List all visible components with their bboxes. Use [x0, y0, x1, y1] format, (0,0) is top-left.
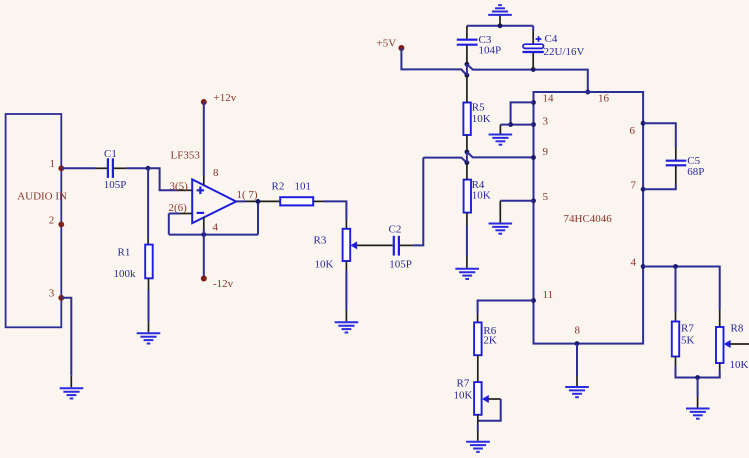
svg-text:8: 8	[575, 324, 581, 336]
node jog upper	[465, 150, 470, 155]
wire pin8 to ground	[576, 344, 578, 386]
wire R6 to R7	[477, 355, 479, 382]
capacitor C2	[389, 223, 412, 270]
node R7b tap	[673, 264, 678, 269]
node output feedback tap	[256, 199, 261, 204]
ground under R4	[455, 269, 479, 279]
svg-text:22U/16V: 22U/16V	[544, 46, 585, 58]
svg-text:2K: 2K	[483, 334, 497, 346]
svg-text:+5V: +5V	[377, 37, 397, 49]
ground under R1	[137, 333, 161, 343]
capacitor C3	[457, 34, 501, 56]
capacitor C5 68P	[666, 155, 705, 178]
wire op-amp pin 4 to -12v	[203, 217, 205, 278]
wire R8 top lead	[719, 310, 721, 327]
node IC pin 3	[531, 122, 536, 127]
svg-text:8: 8	[213, 167, 219, 179]
svg-text:7: 7	[631, 179, 637, 191]
svg-text:100k: 100k	[114, 268, 137, 280]
ground under J1	[60, 388, 84, 398]
svg-text:14: 14	[543, 92, 555, 104]
wire R5 bottom lead	[466, 135, 468, 152]
resistor R1 100k	[114, 245, 153, 280]
ground at pin5	[489, 224, 513, 234]
resistor R4 10K	[464, 179, 491, 213]
svg-text:104P: 104P	[479, 45, 502, 57]
wire tap to ground	[697, 378, 699, 408]
wire +5V rail right to IC pin 16	[467, 64, 588, 92]
wire feedback rail	[169, 234, 258, 236]
node IC pin 14	[531, 100, 536, 105]
node pin16	[585, 90, 590, 95]
svg-text:-12v: -12v	[213, 278, 234, 290]
svg-text:105P: 105P	[389, 258, 412, 270]
wire pin11 to R6	[478, 301, 534, 323]
svg-text:5K: 5K	[681, 334, 695, 346]
svg-text:4: 4	[213, 222, 219, 234]
svg-text:68P: 68P	[687, 166, 704, 178]
capacitor C4 22U/16V polarized	[523, 33, 585, 58]
resistor R6 2K	[474, 322, 497, 355]
connector J1 AUDIO IN box	[6, 114, 67, 327]
node top ground junction	[498, 23, 503, 28]
wire pin14 to pin3 loop	[511, 102, 534, 124]
potentiometer R8 10K	[716, 323, 749, 372]
svg-text:74HC4046: 74HC4046	[564, 213, 613, 225]
wire C2 to VCOin riser	[400, 158, 423, 246]
svg-text:10K: 10K	[730, 359, 749, 371]
wire pin4 net	[643, 267, 720, 311]
wire J1 pin1 to C1	[61, 167, 107, 169]
wire C5 to pin7	[643, 165, 676, 189]
svg-text:16: 16	[598, 92, 610, 104]
node pin14/pin3 junction	[508, 122, 513, 127]
ground under R3	[335, 322, 359, 332]
node pin3 J1	[58, 295, 64, 301]
capacitor C1	[104, 148, 127, 191]
wire between jog nodes	[466, 152, 468, 163]
wire R5 top lead	[466, 75, 468, 102]
node feedback/pin4 crossing	[201, 232, 206, 237]
node IC pin 6	[641, 121, 646, 126]
svg-text:10K: 10K	[472, 190, 491, 202]
wire op-amp output to R2	[236, 200, 280, 202]
capacitor C4 leads	[532, 26, 534, 70]
svg-text:R3: R3	[314, 235, 327, 247]
svg-text:10K: 10K	[472, 113, 491, 125]
wire pin5 to ground	[500, 201, 533, 223]
wire feedback up to output	[257, 202, 259, 235]
ground under R7	[466, 442, 490, 452]
svg-text:+12v: +12v	[214, 92, 237, 104]
wire R3 wiper to C2	[357, 244, 393, 246]
wire between +5V jog nodes	[466, 64, 468, 75]
potentiometer R3 10K	[314, 229, 358, 271]
wire node A to op-amp noninverting input	[148, 168, 192, 190]
svg-text:C2: C2	[389, 223, 402, 235]
svg-text:6: 6	[630, 125, 636, 137]
node IC pin 4	[641, 264, 646, 269]
ground top inverted	[488, 5, 512, 26]
resistor R7b 5K	[672, 322, 695, 357]
svg-text:101: 101	[295, 181, 312, 193]
wire +5V rail left	[401, 48, 467, 75]
wire R1 to ground	[148, 278, 150, 332]
wire op-amp inverting input	[169, 214, 192, 235]
node pin2 J1	[58, 222, 64, 228]
svg-text:2: 2	[49, 215, 55, 227]
node C4 tap on +5V rail	[531, 67, 536, 72]
node IC pin 7	[641, 187, 646, 192]
wire tap down to R7b	[675, 267, 677, 322]
wire R4 top lead	[466, 163, 468, 180]
wire R7 bottom to ground	[477, 415, 479, 441]
wire junction to ground	[500, 125, 510, 134]
svg-text:11: 11	[543, 289, 554, 301]
node IC pin 8	[575, 341, 580, 346]
svg-text:1( 7): 1( 7)	[237, 189, 258, 201]
svg-text:2(6): 2(6)	[169, 202, 188, 214]
svg-text:3: 3	[49, 288, 55, 300]
wire R2 to R3 top	[313, 201, 346, 228]
svg-text:LF353: LF353	[171, 150, 201, 162]
node A junction C1/R1/op-amp	[146, 166, 151, 171]
ground at pin3	[489, 135, 513, 145]
svg-text:105P: 105P	[104, 179, 127, 191]
svg-text:R7: R7	[457, 377, 470, 389]
wire VCOin horizontal to jog	[423, 158, 467, 163]
svg-text:R2: R2	[272, 181, 285, 193]
wire J1 pin3 to ground	[61, 298, 71, 388]
wire +12v to op-amp pin 8	[203, 102, 205, 185]
+12v power dot	[201, 99, 207, 105]
svg-text:R8: R8	[731, 323, 744, 335]
+5V power dot	[398, 45, 404, 51]
svg-text:R7: R7	[681, 322, 694, 334]
capacitor C3 leads	[466, 26, 468, 64]
wire R4 to ground	[466, 213, 468, 268]
svg-text:R5: R5	[472, 102, 485, 114]
svg-text:3: 3	[543, 115, 549, 127]
svg-text:9: 9	[543, 146, 549, 158]
svg-text:3(5): 3(5)	[170, 180, 189, 192]
wire C1 to node A	[114, 167, 148, 169]
svg-text:C4: C4	[545, 33, 558, 45]
wire bottom rail R7b/R8	[676, 357, 720, 378]
wire node A down to R1	[147, 168, 149, 244]
op-amp U1 LF353	[171, 150, 237, 223]
-12v power dot	[201, 276, 207, 282]
svg-text:AUDIO IN: AUDIO IN	[17, 191, 67, 203]
ground bottom right	[686, 409, 710, 419]
svg-text:10K: 10K	[315, 259, 334, 271]
wire top ground rail C3/C4	[467, 25, 533, 27]
svg-text:4: 4	[631, 256, 637, 268]
node IC pin 9	[531, 155, 536, 160]
IC U2 74HC4046	[534, 92, 644, 344]
node IC pin 11	[531, 298, 536, 303]
node +5V jog lower	[465, 73, 470, 78]
wire R3 bottom to ground	[345, 261, 347, 321]
svg-text:10K: 10K	[454, 389, 473, 401]
wire pin6 to C5	[643, 123, 676, 160]
wire R7 wiper loop to bottom	[478, 399, 501, 421]
svg-text:C1: C1	[104, 148, 117, 160]
potentiometer R7 10K	[454, 377, 489, 415]
ground at pin8	[565, 387, 589, 397]
svg-text:1: 1	[50, 158, 56, 170]
node +5V jog upper	[465, 62, 470, 67]
node jog lower	[465, 160, 470, 165]
resistor R5 10K	[463, 102, 490, 135]
node ground tap bottom rail	[695, 375, 700, 380]
svg-text:R1: R1	[118, 247, 131, 259]
node IC pin 5	[531, 198, 536, 203]
resistor R2 101	[272, 181, 314, 206]
svg-text:5: 5	[543, 191, 549, 203]
wire jog to IC pin 9	[467, 152, 534, 158]
wire R8 wiper to edge	[730, 343, 749, 345]
node pin1 J1	[58, 165, 64, 171]
